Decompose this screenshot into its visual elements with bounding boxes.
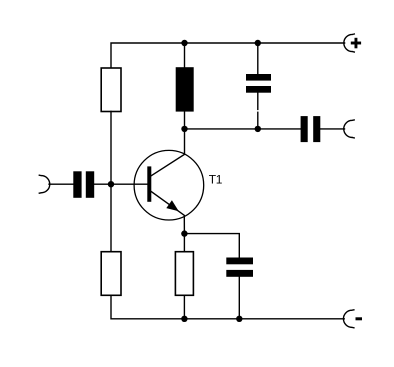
wire: middle rail top (top rail down to collector load) <box>184 43 186 67</box>
transistor T1 emitter arrow <box>166 200 179 211</box>
wire: C2 top connection from top rail <box>257 43 259 74</box>
wire: C3 bottom to bottom rail <box>238 277 240 319</box>
wire: C1 to base node on left rail and on to transistor base <box>94 183 147 185</box>
wire: left rail between R1 and R2 (through base node) <box>110 112 112 252</box>
node: top rail / C2 junction <box>255 40 261 46</box>
capacitor C2 (supply decoupling, horizontal plates) <box>246 74 271 93</box>
node: collector junction <box>181 126 187 132</box>
node: top rail / collector load junction <box>181 40 187 46</box>
terminal: input connector arc <box>39 175 49 193</box>
wire: emitter lead with arrow <box>151 192 184 234</box>
wire: output cap to output terminal <box>320 128 344 130</box>
wire: C2 bottom to collector row (upper piece) <box>257 93 259 110</box>
wire: C2 bottom to collector row (lower piece) <box>257 112 259 129</box>
terminal + (positive supply connector arc) <box>344 34 354 52</box>
node: emitter junction <box>181 230 187 236</box>
resistor R3 collector load (filled body) <box>176 67 194 111</box>
terminal - (negative supply connector arc) <box>343 310 353 328</box>
capacitor C3 (emitter bypass, horizontal plates) <box>226 258 253 277</box>
node: bottom rail / C3 junction <box>236 316 242 322</box>
node: base junction on left rail <box>108 181 114 187</box>
wire: top rail from left rail corner to + terminal <box>111 43 345 68</box>
wire: collector lead into transistor <box>151 129 184 176</box>
resistor R1 (upper left bias resistor) <box>101 68 121 112</box>
terminal: output connector arc <box>344 120 354 138</box>
wire: emitter node to emitter resistor <box>183 234 185 252</box>
label: plus sign <box>351 38 361 49</box>
transistor T1 circle <box>134 150 204 220</box>
wire: collector load bottom to collector node <box>184 112 186 129</box>
capacitor C1 (input coupling, vertical plates) <box>73 171 94 198</box>
node: collector row / C2 junction <box>255 126 261 132</box>
node: bottom rail / emitter resistor junction <box>181 316 187 322</box>
wire: collector row from collector node to output capacitor <box>185 128 301 130</box>
wire: left rail bottom segment to bottom rail <box>111 295 344 319</box>
wire: emitter node right to C3 <box>184 234 239 258</box>
transistor T1 base bar <box>147 166 151 201</box>
wire: emitter resistor bottom to bottom rail <box>183 295 185 319</box>
wire: input terminal to C1 <box>49 183 73 185</box>
capacitor C4 (output coupling, vertical plates) <box>301 116 321 142</box>
svg-text:T1: T1 <box>209 173 223 187</box>
label: minus sign <box>356 317 363 320</box>
resistor R2 (lower left bias resistor) <box>101 252 121 296</box>
resistor R4 (emitter resistor) <box>175 252 193 296</box>
